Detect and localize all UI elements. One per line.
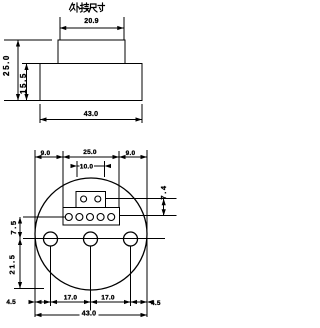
svg-text:43.0: 43.0 (82, 310, 96, 317)
svg-text:9.0: 9.0 (41, 150, 51, 157)
svg-text:9.0: 9.0 (126, 150, 136, 157)
svg-text:4.5: 4.5 (151, 300, 161, 307)
svg-text:4.5: 4.5 (6, 299, 16, 306)
svg-text:20.9: 20.9 (84, 18, 98, 25)
svg-text:25.0: 25.0 (2, 54, 11, 76)
svg-text:7.4: 7.4 (159, 184, 168, 199)
svg-text:17.0: 17.0 (64, 295, 78, 302)
svg-text:25.0: 25.0 (83, 149, 97, 156)
svg-text:17.0: 17.0 (101, 295, 115, 302)
svg-text:43.0: 43.0 (84, 111, 98, 118)
svg-text:10.0: 10.0 (80, 163, 94, 170)
svg-text:21.5: 21.5 (8, 254, 17, 275)
svg-text:15.5: 15.5 (19, 72, 28, 94)
svg-text:7.5: 7.5 (9, 219, 18, 234)
